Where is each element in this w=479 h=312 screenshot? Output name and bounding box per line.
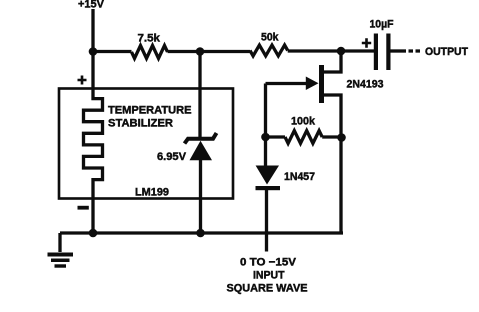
svg-text:SQUARE WAVE: SQUARE WAVE xyxy=(227,283,308,295)
svg-text:LM199: LM199 xyxy=(135,187,169,199)
svg-text:2N4193: 2N4193 xyxy=(347,79,384,91)
svg-text:6.95V: 6.95V xyxy=(157,151,187,163)
svg-text:STABILIZER: STABILIZER xyxy=(108,118,173,130)
svg-text:+15V: +15V xyxy=(78,0,105,11)
svg-text:0 TO −15V: 0 TO −15V xyxy=(240,257,297,269)
svg-text:100k: 100k xyxy=(291,116,316,128)
svg-text:INPUT: INPUT xyxy=(253,270,285,282)
svg-text:7.5k: 7.5k xyxy=(138,33,161,45)
svg-text:1N457: 1N457 xyxy=(284,171,315,183)
svg-text:OUTPUT: OUTPUT xyxy=(425,46,468,58)
svg-text:TEMPERATURE: TEMPERATURE xyxy=(108,105,192,117)
svg-text:10µF: 10µF xyxy=(370,19,394,31)
svg-text:50k: 50k xyxy=(261,32,279,44)
